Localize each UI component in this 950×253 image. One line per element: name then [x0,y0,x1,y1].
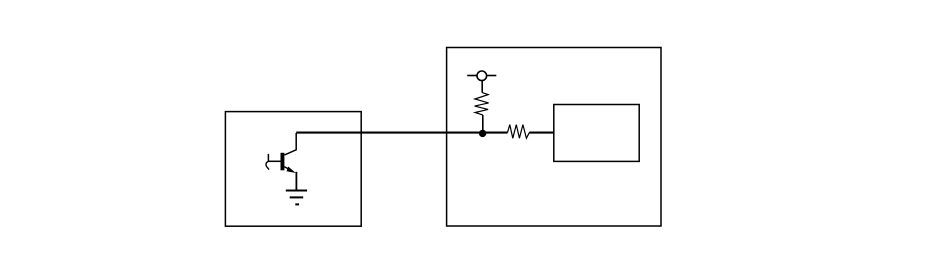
wire: emitter to ground [295,172,297,190]
transistor Q1 emitter lead with arrow [284,167,290,170]
transistor Q1 base bar [281,153,285,171]
transistor Q1 base lead [268,160,280,162]
node: junction dot [479,130,486,137]
transistor Q1 base hook (curl at open end) [266,161,269,169]
block U1 (inner rectangle) [554,105,639,162]
wire: collector to node (main horizontal wire) [296,132,507,134]
wire: resistor R2 to block U1 [530,132,554,134]
transistor Q1 collector lead [285,133,297,155]
wire: power terminal to resistor R1 [481,80,483,92]
resistor R1 (vertical zigzag) [475,93,489,116]
wire: resistor R1 to node [482,115,484,131]
transistor Q1 base stub (vertical tick) [267,154,269,161]
box: driver stage (left enclosure) [225,112,361,227]
ground [286,191,307,205]
resistor R2 (horizontal zigzag) [508,125,530,139]
box: load stage (right enclosure) [447,48,661,227]
power terminal (circle with side leads) [467,71,496,81]
